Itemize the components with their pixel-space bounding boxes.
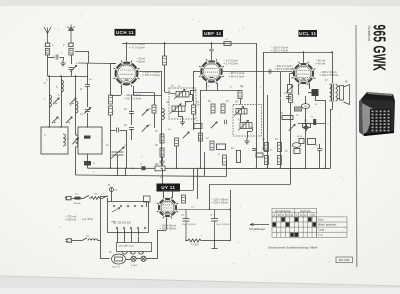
variable capacitor C25 osc tuning [111, 147, 124, 159]
svg-text:Mittel: gedrückt: Mittel: gedrückt [318, 223, 336, 227]
svg-text:D: D [287, 213, 289, 217]
resistor R60 [289, 95, 293, 103]
fuse F3 [131, 256, 136, 261]
wire [211, 43, 213, 49]
coil L26 osc feedback [162, 109, 164, 120]
capacitor C50 block [217, 144, 226, 150]
svg-text:= 1 V 0,5mA: = 1 V 0,5mA [224, 62, 239, 66]
wire chassis bus [88, 167, 331, 169]
wire [154, 93, 156, 106]
wire [81, 198, 85, 200]
resistor R45 [303, 124, 311, 128]
svg-text:400mA: 400mA [74, 202, 81, 205]
wire [133, 95, 162, 97]
wire [201, 240, 215, 242]
resistor R63 [308, 139, 316, 145]
wire [178, 112, 180, 117]
tuner rail 2 [61, 76, 63, 127]
ground [60, 60, 65, 66]
tube V4 UY 11 rectifier [157, 197, 179, 219]
tube V3 UCL 11 output pentode [292, 62, 316, 86]
wire [120, 130, 127, 132]
capacitor C13 block inside K2 [84, 136, 91, 139]
wire IF primary rail [161, 71, 163, 168]
wire HT supply bus top right [263, 52, 332, 54]
svg-text:G: G [300, 213, 302, 217]
resistor R44 volume feed [282, 116, 293, 120]
potentiometer P2 grid [288, 85, 293, 94]
wire [60, 57, 64, 59]
resistor R30 [192, 105, 196, 114]
label tube V1 UCH 11 [115, 29, 136, 36]
wire [263, 150, 267, 152]
wire [71, 71, 73, 76]
wire heater V4 [166, 218, 168, 231]
coil T2 secondary (IF) [238, 120, 252, 130]
resistor R52 [237, 151, 241, 163]
svg-text:965 GWK: 965 GWK [339, 259, 350, 262]
wire heater tap 4 [138, 229, 140, 243]
document number box 965 GWK [336, 257, 353, 263]
wire [186, 240, 188, 242]
wire [164, 65, 166, 88]
coil T2 primary (IF) [234, 106, 247, 116]
coil can K1 (gang section 1) [41, 127, 68, 154]
mains plug P1 [65, 196, 71, 199]
coil L2 MW [49, 95, 51, 107]
svg-text:= 98 V 0,3mA: = 98 V 0,3mA [229, 74, 245, 78]
svg-text:= 205 V 66mA: = 205 V 66mA [212, 201, 229, 205]
wire [289, 74, 291, 85]
wire [240, 114, 242, 123]
capacitor C1 antenna series [45, 43, 49, 47]
svg-text:UCH 11: UCH 11 [116, 30, 134, 35]
wire heater tap 2 [124, 229, 126, 243]
wire [319, 150, 321, 168]
wire [125, 168, 127, 175]
wire [290, 103, 292, 185]
wire [72, 240, 83, 242]
wire [136, 258, 141, 260]
svg-text:50µF 150/200V: 50µF 150/200V [216, 224, 230, 226]
wire [305, 108, 307, 168]
wire [71, 55, 73, 64]
wire rail [325, 100, 327, 168]
trimmer capacitor C23 [142, 125, 148, 131]
wire [71, 198, 75, 200]
wire [193, 72, 195, 96]
wire [226, 160, 228, 176]
capacitor C40 coupling [209, 49, 214, 51]
resistor R57 oval [293, 143, 301, 148]
trimmer capacitor C11 [84, 107, 90, 113]
resistor R16 [152, 105, 156, 113]
resistor R39 [224, 42, 231, 46]
capacitor C61 [304, 127, 309, 129]
output transformer T3 [330, 84, 332, 101]
coil L5 variable osc [76, 135, 78, 147]
wire [126, 130, 128, 168]
ground T2 [244, 138, 249, 144]
tuner rail 3 [75, 76, 77, 135]
capacitor C20 [129, 112, 134, 114]
potentiometer P1 volume [289, 124, 295, 130]
wire rail right edge [330, 109, 332, 169]
filled cells of table [281, 217, 284, 221]
wire [303, 52, 305, 63]
capacitor C22 [129, 128, 134, 130]
push-button function table [272, 209, 317, 217]
resistor R70 mains zigzag [91, 197, 101, 200]
resistor R54 [265, 156, 269, 165]
wire rail [263, 52, 265, 150]
wire heater tap 1 [117, 229, 119, 243]
wire rail AVC [267, 95, 269, 168]
resistor R55 [278, 143, 282, 152]
wire [63, 57, 65, 60]
wire [111, 63, 117, 65]
trimmer capacitor C3 [70, 65, 76, 71]
wire [338, 98, 340, 100]
svg-text:= 150 V 4,3mA: = 150 V 4,3mA [271, 49, 289, 53]
capacitor C10 [85, 85, 90, 87]
wire [87, 113, 89, 127]
wire [315, 96, 317, 100]
capacitor C52 [294, 149, 300, 154]
svg-text:73 100: 73 100 [191, 244, 199, 247]
resistor R58 [256, 153, 263, 157]
wire [211, 51, 213, 60]
resistor R40 diode load [238, 91, 242, 99]
wire [157, 230, 159, 244]
resistor R62 (dark) [313, 119, 316, 125]
svg-text:A: A [273, 213, 275, 217]
wire [111, 130, 116, 132]
wire [172, 190, 174, 198]
wire [164, 43, 166, 56]
radio cabinet illustration [359, 92, 395, 136]
wire left rail power [100, 197, 102, 259]
wire [154, 113, 156, 128]
capacitor C42 [225, 120, 227, 125]
wire [309, 83, 311, 89]
wire tuner top connect [48, 76, 89, 78]
capacitor C2 earth series [69, 43, 73, 47]
svg-text:50µF 150/200V: 50µF 150/200V [182, 224, 196, 226]
switch contact S1a [53, 98, 59, 104]
tuner rail 1 [49, 76, 51, 127]
capacitor C43 [286, 97, 291, 99]
svg-text:C: C [282, 213, 284, 217]
wire [133, 86, 135, 95]
wire [163, 190, 194, 192]
svg-text:6,3V 0,1: 6,3V 0,1 [112, 267, 121, 269]
wire [193, 114, 195, 130]
svg-text:F: F [296, 213, 298, 217]
wire [157, 244, 159, 259]
wire [146, 202, 148, 207]
wire cathode HT out [178, 209, 231, 211]
wire [111, 95, 122, 97]
dial lamp La 6,3V [112, 254, 126, 264]
capacitor C14 block below K2 [84, 161, 91, 166]
wire [197, 168, 199, 199]
voltage selector block [108, 202, 149, 233]
resistor R29 [160, 148, 164, 157]
wire [206, 83, 208, 90]
svg-text:UBF 11: UBF 11 [204, 31, 222, 36]
resistor R59 series in bus [155, 166, 165, 171]
switch S10 mains [84, 195, 91, 198]
wire [189, 94, 192, 96]
svg-text:K: K [313, 213, 315, 217]
chassis bar [212, 248, 218, 250]
wire [332, 102, 334, 110]
IF transformer T2 shield (dashed) [233, 105, 262, 137]
resistor R51 [223, 155, 227, 165]
resistor R72 surge [182, 195, 186, 203]
wire [48, 57, 55, 59]
svg-text:E: E [291, 213, 293, 217]
ground T1 [180, 119, 185, 125]
wire [98, 240, 100, 242]
wire [209, 184, 211, 209]
wire [193, 71, 200, 73]
resistor R50 [210, 141, 214, 150]
resistor R13 [109, 95, 113, 104]
resistor R43 [295, 107, 302, 111]
wire [131, 130, 133, 141]
coil can K2 (gang section 2) [78, 127, 102, 154]
wire [185, 101, 187, 106]
svg-text:u(H) u(BH) u(CL): u(H) u(BH) u(CL) [119, 245, 135, 247]
wire [291, 72, 294, 74]
wire [217, 83, 219, 90]
wire right rail power [230, 190, 232, 241]
tube V1 UCH 11 triode-hexode [113, 60, 139, 86]
tube V2 UBF 11 diode-pentode [199, 59, 224, 84]
antenna A [44, 27, 51, 43]
svg-text:T. A.: T. A. [318, 233, 323, 237]
svg-text:Kurz: Kurz [318, 218, 324, 222]
wire [110, 115, 112, 168]
coil L4 inside K1 [63, 134, 65, 146]
wire to RF line [75, 51, 88, 53]
resistor R2 earth [69, 49, 73, 56]
resistor R31 [175, 138, 179, 146]
wire [240, 99, 242, 105]
resistor R61 oval cathode [301, 104, 309, 109]
switch contact S4 [211, 122, 217, 128]
svg-text:= 80 V 0,35mA: = 80 V 0,35mA [275, 67, 293, 71]
capacitor C60 block (dark) [312, 89, 319, 96]
earth antenna symbol [67, 24, 74, 30]
fuse F4 [141, 256, 146, 261]
wire AF takeoff to V3 [223, 71, 292, 73]
label tube V3 UCL 11 [299, 30, 318, 37]
resistor R1 antenna [45, 49, 49, 56]
wire anode feed [163, 190, 165, 198]
coil T1 secondary (IF) [170, 104, 185, 114]
svg-text:Schaltbild: Schaltbild [367, 26, 371, 41]
wire [158, 230, 167, 232]
wire heater line [100, 258, 110, 260]
wire [330, 109, 333, 111]
resistor R28 [160, 134, 164, 143]
resistor R27 [194, 124, 202, 129]
resistor R28a [199, 133, 203, 141]
svg-text:= 40 mA: = 40 mA [316, 62, 326, 66]
wire [215, 240, 231, 242]
switch contact S2a [70, 98, 76, 104]
svg-text:Gezeichnete Schalterstellung:: Gezeichnete Schalterstellung: Mittel [268, 245, 318, 249]
svg-text:= 100 V 37,5mA: = 100 V 37,5mA [320, 73, 339, 77]
switch S12 a.Tr [103, 196, 108, 198]
svg-text:= 157 V 5,0mA: = 157 V 5,0mA [124, 96, 142, 100]
wire [178, 116, 183, 118]
wire rail to AVC bus [200, 90, 202, 168]
wire [308, 92, 312, 94]
wire [102, 198, 104, 200]
resistor R42 [221, 104, 225, 113]
wire [338, 86, 340, 88]
wire [247, 131, 252, 133]
capacitor C3 plates [69, 68, 74, 70]
trimmer capacitor C21 [142, 109, 148, 115]
label tube V2 UBF 11 [203, 30, 224, 37]
wire anode V1 to IF [139, 71, 162, 73]
wire [192, 94, 194, 101]
wire heater riser [204, 152, 206, 176]
wire diode load [200, 90, 240, 92]
wire [88, 51, 90, 63]
resistor R14 [109, 106, 113, 115]
coil L70 [88, 239, 98, 241]
capacitor C63 [317, 149, 322, 151]
capacitor C31 [160, 161, 165, 163]
scan noise specks [27, 15, 346, 264]
wire [111, 192, 113, 202]
wire anode V3 to T3 [332, 52, 334, 83]
heater chain block [117, 243, 152, 252]
loudspeaker LS [340, 85, 350, 105]
wire cathode V1 [121, 86, 123, 95]
wire [176, 146, 178, 168]
coil L1 LW [61, 80, 63, 92]
resistor R56 [278, 156, 282, 165]
capacitor C62 [299, 139, 304, 144]
electrolytic C71 50uF [211, 210, 218, 241]
wire [107, 198, 109, 202]
wire [165, 92, 177, 94]
wire [247, 131, 249, 138]
svg-text:H: H [304, 213, 306, 217]
wire to rectifier label [162, 168, 164, 183]
IF transformer T1 shield (dashed) [169, 88, 196, 119]
wire [315, 100, 325, 102]
capacitor C24 [117, 128, 119, 133]
wire [117, 155, 119, 168]
svg-text:= 150 mA: = 150 mA [65, 218, 76, 222]
resistor R41 [211, 104, 215, 113]
wire [290, 73, 294, 75]
wire [190, 90, 192, 94]
wire [87, 166, 89, 169]
fuse F2 Si 0,8 [110, 188, 114, 192]
switch contact S1 [52, 117, 58, 123]
svg-text:Lang: Lang [318, 228, 324, 232]
wire cathode V1 [133, 92, 154, 94]
wire [126, 259, 131, 261]
wire [100, 196, 108, 198]
mains plug P2 (phono) [65, 239, 71, 242]
capacitor C41 coupling [269, 69, 271, 74]
resistor R15 screen [163, 56, 167, 65]
svg-text:Schaltklingel: Schaltklingel [249, 227, 265, 231]
capacitor C4 coupling [56, 55, 58, 60]
svg-text:= 77 V 0,5mA: = 77 V 0,5mA [129, 45, 145, 49]
wire [298, 123, 325, 125]
svg-text:= 80mA: = 80mA [136, 60, 145, 64]
coil T1 primary (IF) [174, 89, 189, 99]
wire [117, 168, 119, 175]
arrow Schaltklingel [250, 223, 269, 225]
capacitor C37 series in bus [142, 166, 146, 170]
wire heater tap 3 [131, 229, 133, 243]
svg-text:} ca. 58 W: } ca. 58 W [82, 218, 94, 221]
wire rail [280, 72, 282, 168]
wire heater return [146, 258, 157, 260]
wire grid feed UCH [78, 62, 116, 65]
wire antenna down-lead [47, 55, 49, 76]
switch contact S2 [66, 117, 72, 123]
separator rule between schematic and title column [355, 25, 358, 267]
label tube V4 UY 11 [157, 184, 181, 192]
switch S11 [82, 238, 87, 241]
svg-text:B: B [278, 213, 280, 217]
wire gang chassis line [76, 175, 205, 176]
svg-text:a.Tr: a.Tr [101, 194, 105, 196]
svg-text:110 125 150 220: 110 125 150 220 [113, 222, 131, 225]
wire HT feed [210, 184, 291, 186]
wire [193, 95, 195, 105]
wire [214, 241, 216, 249]
resistor R71 dropper [144, 196, 151, 202]
heater chain humps [122, 252, 144, 255]
svg-text:= 160 V 5,3mA: = 160 V 5,3mA [143, 73, 161, 77]
wire [87, 154, 89, 161]
wire [319, 144, 321, 149]
wire [305, 96, 307, 104]
electrolytic C70 50uF [183, 210, 190, 241]
capacitor C51 [252, 149, 257, 151]
resistor R53 [265, 143, 269, 152]
wire HT feed down [193, 168, 195, 190]
wire [252, 129, 254, 132]
wire grid leak rail [110, 64, 112, 96]
wire cathode V3 [298, 84, 300, 95]
wire HT supply bus top left [122, 43, 256, 45]
wire anode supply V1 [126, 43, 128, 61]
wire rail screen feed [256, 43, 258, 168]
wire [75, 147, 77, 175]
svg-text:0,1A 2: 0,1A 2 [131, 264, 138, 267]
wire heater link [204, 176, 227, 178]
coil L3 [76, 101, 78, 113]
switch contact S3 [183, 132, 189, 138]
resistor R73 smoothing zigzag [188, 239, 201, 242]
wire [185, 101, 192, 103]
